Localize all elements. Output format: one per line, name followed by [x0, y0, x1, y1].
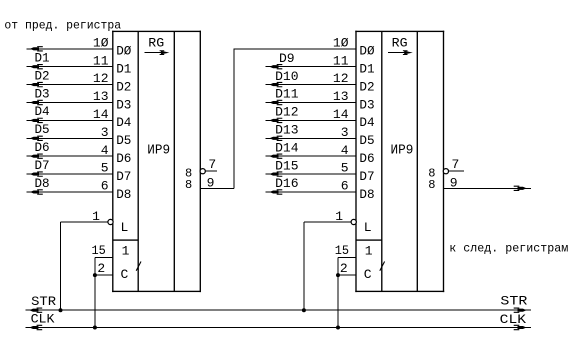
svg-text:D5: D5 [116, 133, 131, 148]
svg-text:STR: STR [500, 293, 527, 308]
svg-text:D2: D2 [35, 68, 50, 83]
svg-text:11: 11 [93, 53, 109, 68]
svg-text:6: 6 [101, 179, 109, 194]
svg-text:D1: D1 [116, 62, 131, 77]
svg-text:ИР9: ИР9 [391, 142, 414, 158]
svg-text:RG: RG [392, 36, 408, 51]
svg-text:D8: D8 [359, 187, 374, 202]
svg-text:5: 5 [101, 161, 109, 176]
svg-text:1: 1 [122, 243, 130, 258]
svg-text:7: 7 [208, 157, 216, 172]
svg-text:5: 5 [341, 161, 349, 176]
svg-text:D1: D1 [35, 51, 50, 66]
svg-text:D5: D5 [359, 133, 374, 148]
svg-text:L: L [121, 220, 129, 235]
svg-text:L: L [364, 220, 372, 235]
svg-text:D3: D3 [359, 97, 374, 112]
svg-text:CLK: CLK [500, 312, 527, 327]
svg-text:D4: D4 [359, 115, 374, 130]
svg-text:12: 12 [93, 71, 109, 86]
svg-text:8: 8 [185, 178, 192, 192]
svg-text:D6: D6 [116, 151, 131, 166]
svg-text:D12: D12 [275, 105, 298, 120]
svg-text:15: 15 [92, 243, 106, 258]
svg-text:D3: D3 [35, 86, 50, 101]
svg-text:RG: RG [148, 36, 164, 51]
svg-text:D11: D11 [275, 87, 299, 102]
svg-text:14: 14 [333, 107, 349, 122]
svg-text:от пред. регистра: от пред. регистра [4, 18, 121, 32]
svg-text:9: 9 [207, 175, 215, 190]
svg-text:8: 8 [428, 178, 435, 192]
svg-text:1Ø: 1Ø [333, 35, 349, 50]
svg-text:CLK: CLK [31, 312, 55, 327]
svg-text:DØ: DØ [116, 44, 131, 59]
svg-text:1: 1 [335, 209, 343, 224]
svg-text:D6: D6 [35, 140, 50, 155]
svg-text:C: C [364, 267, 372, 282]
svg-text:7: 7 [452, 157, 460, 172]
svg-text:1: 1 [92, 209, 100, 224]
svg-text:D9: D9 [279, 51, 295, 66]
svg-text:4: 4 [101, 143, 109, 158]
svg-text:3: 3 [341, 125, 349, 140]
svg-text:3: 3 [101, 125, 109, 140]
svg-text:D1: D1 [359, 62, 374, 77]
svg-text:D2: D2 [116, 79, 131, 94]
svg-text:D8: D8 [35, 176, 50, 191]
svg-text:к след. регистрам: к след. регистрам [449, 241, 568, 255]
svg-text:14: 14 [93, 107, 109, 122]
svg-text:1Ø: 1Ø [93, 35, 109, 50]
svg-text:ИР9: ИР9 [147, 142, 170, 158]
svg-text:D7: D7 [359, 169, 374, 184]
svg-text:6: 6 [341, 179, 349, 194]
svg-text:D3: D3 [116, 97, 131, 112]
svg-text:D4: D4 [35, 104, 50, 119]
svg-text:1: 1 [365, 243, 373, 258]
svg-text:D6: D6 [359, 151, 374, 166]
svg-text:15: 15 [335, 243, 349, 258]
svg-text:D5: D5 [35, 122, 50, 137]
svg-text:D4: D4 [116, 115, 131, 130]
svg-text:D2: D2 [359, 79, 374, 94]
svg-text:D16: D16 [275, 176, 298, 191]
svg-text:D7: D7 [35, 158, 50, 173]
svg-text:D15: D15 [275, 158, 298, 173]
svg-text:12: 12 [333, 71, 349, 86]
svg-text:13: 13 [333, 89, 349, 104]
svg-text:C: C [121, 267, 129, 282]
svg-text:D13: D13 [275, 123, 298, 138]
svg-text:4: 4 [341, 143, 349, 158]
svg-text:2: 2 [97, 261, 105, 276]
svg-text:2: 2 [340, 261, 348, 276]
svg-text:DØ: DØ [359, 44, 374, 59]
svg-text:STR: STR [31, 294, 56, 309]
svg-text:D7: D7 [116, 169, 131, 184]
svg-text:11: 11 [333, 53, 349, 68]
svg-text:D8: D8 [116, 187, 131, 202]
svg-text:9: 9 [450, 175, 458, 190]
svg-text:13: 13 [93, 89, 109, 104]
svg-text:D14: D14 [275, 140, 299, 155]
svg-text:D10: D10 [275, 69, 298, 84]
